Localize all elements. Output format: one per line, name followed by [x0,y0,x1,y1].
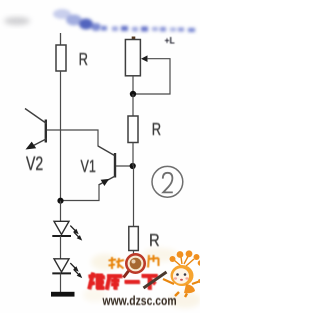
wire: between LED V3 and LED V4 [60,236,62,259]
svg-text:+L: +L [165,35,176,46]
transistor V1 [98,146,115,186]
wire: V1 emitter down and left to LED rail [61,185,100,201]
watermark: orange character 找 [109,257,125,269]
watermark: orange character 片 [148,255,159,268]
resistor R1 [56,45,66,71]
watermark: mascot [163,250,203,297]
svg-text:V1: V1 [81,157,96,177]
svg-text:R: R [149,231,160,251]
watermark: red text 维库一下 [89,273,158,290]
LED V4 [52,259,82,278]
resistor R3 [129,227,139,251]
wire: stub below R3 [133,251,135,257]
svg-text:V2: V2 [26,153,43,175]
watermark: blue dotted row top-right [101,26,195,32]
LED V3 [52,221,82,240]
watermark: mascot pen stroke [144,272,167,288]
node: junction dot at V1 base [130,163,136,169]
node circle label 2 [152,166,183,197]
wire: V1 base node down to R3 [133,166,135,227]
wire: pot bottom to node [132,76,134,94]
watermark: magnifier with logo [124,254,145,277]
wire: stub above resistor R1 [60,33,62,45]
wire: V2 base to V1 collector [47,130,98,147]
node: junction dot at LED anode rail [57,198,63,204]
wire: V1 base to node [116,165,133,167]
svg-text:R: R [152,120,161,140]
resistor R2 [128,116,138,143]
wire: stub above potentiometer [132,37,136,41]
transistor V2 [25,109,47,150]
wire: left rail from R1 down to LED junction [60,71,62,201]
watermark: warm paper tint blobs [83,248,201,308]
watermark: blurred blue blob cluster top [53,9,101,31]
wire: wiper loop to pot bottom node [136,59,170,94]
wire: node to R2 [132,94,134,116]
node: junction dot at pot bottom [130,91,136,97]
potentiometer RP [125,40,147,76]
watermark: blurred gray smudge top-left [4,17,30,25]
svg-text:www.dzsc.com: www.dzsc.com [102,294,177,308]
wire: LED V4 cathode to ground [60,273,62,292]
ground [51,292,75,297]
wire: LED junction down to LED V3 anode [60,201,62,222]
svg-text:R: R [79,50,88,70]
wire: R2 to V1 base node [132,143,134,167]
